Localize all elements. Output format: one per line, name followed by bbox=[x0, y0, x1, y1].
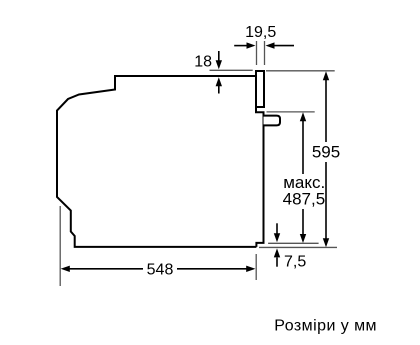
extension line 19.5 right bbox=[264, 41, 266, 65]
svg-text:7,5: 7,5 bbox=[284, 254, 306, 271]
dim line 595 bbox=[325, 80, 327, 142]
front frame flange bbox=[256, 71, 264, 107]
extension line 548 left bbox=[59, 206, 61, 286]
dim 18 down arrow bbox=[218, 51, 220, 61]
dim 18 up arrow bbox=[218, 86, 220, 94]
extension line 19.5 left bbox=[256, 41, 258, 65]
extension line 548 right bbox=[255, 254, 257, 280]
svg-text:18: 18 bbox=[194, 54, 212, 71]
dim 19.5 right arrow bbox=[274, 45, 294, 47]
dim 19.5 left arrow bbox=[234, 45, 247, 47]
svg-text:548: 548 bbox=[147, 262, 174, 279]
door handle bbox=[264, 116, 281, 126]
dim line max 487.5 bbox=[302, 121, 304, 174]
extension line max top (handle area) bbox=[267, 111, 315, 113]
svg-text:Розміри у мм: Розміри у мм bbox=[274, 318, 377, 335]
extension line door bottom bbox=[268, 242, 319, 244]
extension line body bottom bbox=[259, 246, 337, 248]
svg-text:595: 595 bbox=[312, 143, 340, 162]
dim 7.5 down arrow bbox=[276, 223, 278, 233]
dim 7.5 up arrow bbox=[276, 258, 278, 267]
extension line 595 top (flange top, right side) bbox=[266, 70, 335, 72]
oven door front bbox=[256, 107, 264, 247]
oven carcass outline bbox=[57, 76, 256, 247]
svg-text:487,5: 487,5 bbox=[283, 190, 326, 209]
extension line 18 (flange top, left side) bbox=[210, 69, 253, 71]
dim line 548 bbox=[69, 268, 143, 270]
svg-text:19,5: 19,5 bbox=[245, 24, 276, 41]
